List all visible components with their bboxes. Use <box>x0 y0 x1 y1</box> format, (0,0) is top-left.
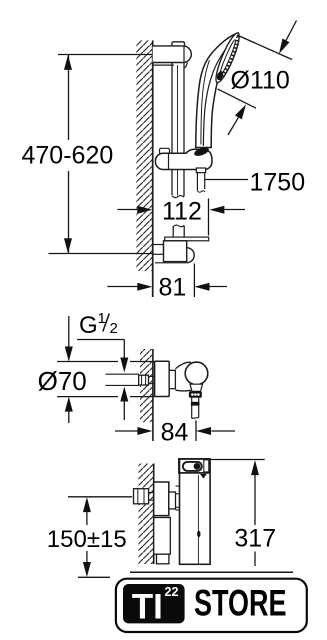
svg-text:Ø70: Ø70 <box>38 366 87 396</box>
svg-text:TI: TI <box>132 588 163 627</box>
svg-text:470-620: 470-620 <box>22 142 114 170</box>
svg-text:317: 317 <box>234 525 276 553</box>
svg-text:22: 22 <box>165 585 179 599</box>
svg-text:112: 112 <box>162 198 202 226</box>
svg-text:1750: 1750 <box>250 168 306 196</box>
svg-text:150±15: 150±15 <box>47 526 127 553</box>
svg-text:STORE: STORE <box>194 581 287 623</box>
svg-text:G: G <box>79 312 98 339</box>
svg-text:84: 84 <box>161 419 189 447</box>
svg-text:81: 81 <box>159 273 187 301</box>
svg-text:2: 2 <box>110 320 118 337</box>
svg-text:Ø110: Ø110 <box>231 67 290 95</box>
